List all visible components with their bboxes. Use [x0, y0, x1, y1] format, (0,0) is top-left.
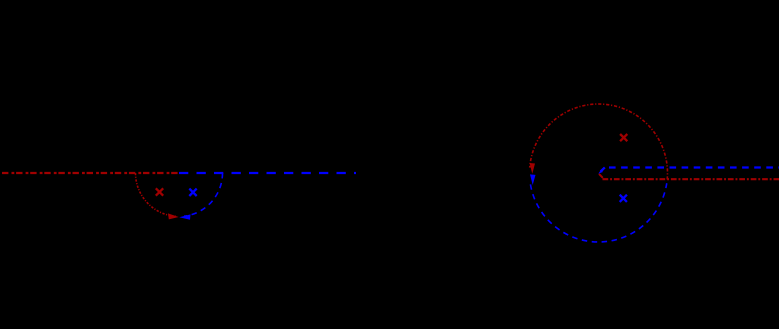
right figure: red arrowhead on left of circle, pointing down [530, 163, 536, 174]
left figure: red pole marker x [156, 188, 163, 195]
right figure: blue arrowhead on left of circle, pointing down [530, 174, 536, 185]
left figure: blue dashed real-axis line [179, 172, 356, 174]
right figure: blue dashed line above branch cut [609, 166, 779, 168]
right figure: blue pole marker x [620, 195, 627, 202]
left figure: blue quarter-circle dip below axis [184, 173, 223, 216]
right figure: red dash-dot top semicircular arc of big circle [530, 104, 668, 179]
left figure: red dash-dot real-axis line [2, 172, 179, 174]
right figure: red pole marker x [620, 134, 627, 141]
left figure: blue pole marker x [189, 189, 196, 196]
right figure: blue arrowhead at inner end of upper line, pointing down-left [601, 167, 605, 171]
left figure: blue arrowhead at bottom of dip, pointing left [179, 214, 190, 219]
right figure: red diagonal connector from vertex to lower line [599, 174, 603, 178]
right figure: red dash-dot line below branch cut [603, 178, 779, 180]
left figure: red arrowhead at bottom of dip, pointing right [168, 213, 179, 219]
right figure: blue dashed bottom semicircular arc of big circle [530, 183, 666, 242]
left figure: red quarter-circle dip below axis [136, 173, 176, 216]
